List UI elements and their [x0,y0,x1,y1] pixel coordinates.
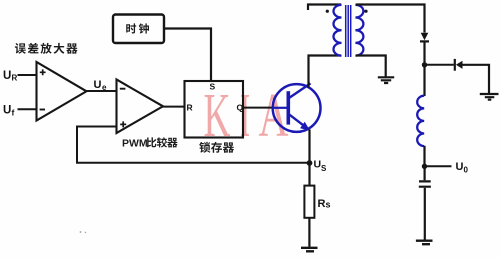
inductor L1 [417,96,424,146]
resistor Rs [304,186,314,218]
label Rs [318,198,331,210]
wire latch Q to transistor base [243,107,274,109]
wire emitter to node U_S [308,130,310,164]
svg-text:U: U [94,79,102,91]
ground (right, after D2) [480,94,499,100]
op-amp U2 PWM comparator [117,80,164,134]
svg-text:f: f [12,108,15,118]
ground (secondary) [378,77,394,83]
transformer T1 secondary winding [355,5,363,56]
ground (Rs) [301,248,318,252]
svg-text:S: S [210,82,216,92]
phase dot secondary [364,10,367,13]
wire Rs to ground [308,218,310,247]
wire U_e (error amp output to comparator inverting input) [86,90,117,92]
clock box (时钟) [113,15,164,44]
input U_R label [3,70,18,83]
wire clock output to latch S input [165,29,212,81]
svg-text:K: K [204,82,231,150]
svg-text:U: U [3,70,11,82]
wire comparator output to latch R input [162,106,185,108]
wire node A to inductor L1 [423,65,425,96]
svg-text:U: U [314,159,322,171]
diode D1 (vertical) [421,33,429,40]
node U_S [307,160,313,166]
svg-text:0: 0 [464,166,469,175]
phase dot primary [326,10,329,13]
node B (output node) [422,164,427,169]
svg-text:I: I [240,82,250,150]
wire collector to transformer primary [309,56,342,88]
svg-text:e: e [102,83,107,92]
label U_S [314,159,328,174]
wire node A to diode D2 [425,64,454,66]
capacitor C1 [424,166,426,180]
wire secondary bottom to ground [356,56,386,77]
label 锁存器 [199,142,234,153]
svg-text:R: R [187,103,193,113]
wire transformer primary top / input stub [308,5,341,11]
label 误差放大器 (error amplifier) [15,43,78,54]
artifact dots [80,231,82,233]
transformer core [346,5,351,57]
wire inductor to node B [423,146,425,167]
svg-text:R: R [318,198,326,210]
wire comparator noninverting input [77,126,117,128]
svg-text:U: U [3,105,11,117]
ground (capacitor) [416,241,433,245]
wire D2 to ground [463,65,490,93]
label U_e [94,79,108,92]
op-amp U1 error amplifier [37,62,87,121]
svg-text:s: s [326,200,331,210]
latch box (锁存器) [185,81,244,138]
watermark KIA [204,82,289,150]
svg-text:U: U [456,161,464,173]
transformer T1 primary winding [334,5,342,56]
svg-text:PWM: PWM [122,138,148,150]
svg-text:Q: Q [237,103,244,113]
wire U_R input [18,74,37,76]
wire to U_0 label [425,165,452,167]
node A (diode junction) [422,62,427,67]
diode D2 (horizontal, cathode left) [454,59,456,71]
svg-text:R: R [12,74,18,83]
feedback wire U_S to comparator noninverting input [77,126,310,163]
input U_f label [3,105,15,118]
wire U_f input [18,108,37,110]
wire U_S node to resistor Rs [308,163,310,186]
transistor Q1 (NPN) [273,83,321,131]
wire secondary top to diode D1 [356,5,425,33]
svg-text:S: S [321,164,327,173]
label U_0 [456,161,469,175]
